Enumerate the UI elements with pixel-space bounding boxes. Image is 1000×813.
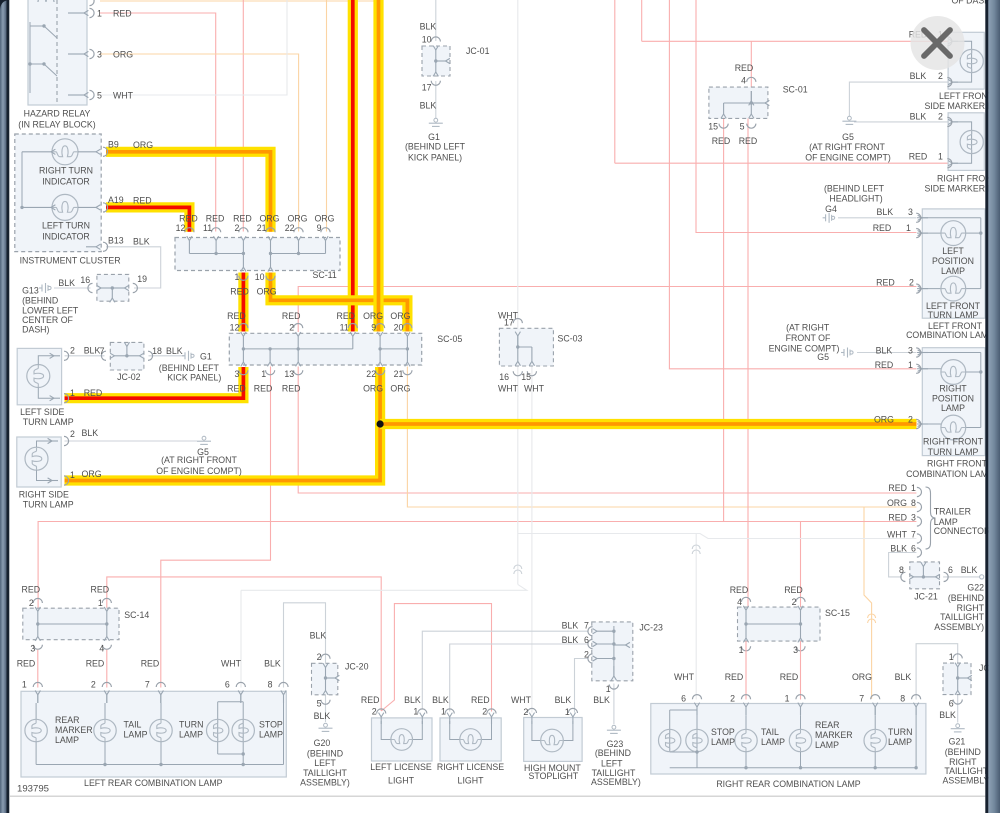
svg-text:TURN LAMP: TURN LAMP xyxy=(23,417,74,427)
svg-text:8: 8 xyxy=(268,679,273,689)
svg-text:ORG: ORG xyxy=(314,213,334,223)
svg-text:LAMP: LAMP xyxy=(124,729,148,739)
svg-text:BLK: BLK xyxy=(910,112,927,122)
svg-text:B13: B13 xyxy=(108,236,124,246)
svg-text:21: 21 xyxy=(257,223,267,233)
svg-text:WHT: WHT xyxy=(113,90,134,100)
svg-text:RED: RED xyxy=(113,8,132,18)
svg-text:1: 1 xyxy=(938,152,943,162)
svg-text:BLK: BLK xyxy=(876,207,893,217)
svg-text:LEFT REAR COMBINATION LAMP: LEFT REAR COMBINATION LAMP xyxy=(84,778,223,788)
svg-text:4: 4 xyxy=(741,76,746,86)
svg-text:RED: RED xyxy=(84,388,103,398)
svg-text:STOP: STOP xyxy=(711,727,735,737)
svg-text:15: 15 xyxy=(521,372,531,382)
svg-text:3: 3 xyxy=(793,645,798,655)
svg-text:3: 3 xyxy=(30,643,35,653)
svg-text:13: 13 xyxy=(284,369,294,379)
svg-text:RED: RED xyxy=(876,278,895,288)
svg-text:LOWER LEFT: LOWER LEFT xyxy=(22,306,79,316)
svg-text:ORG: ORG xyxy=(113,49,133,59)
svg-text:ORG: ORG xyxy=(287,213,307,223)
svg-text:1: 1 xyxy=(606,684,611,694)
svg-text:LAMP: LAMP xyxy=(941,403,965,413)
svg-text:BLK: BLK xyxy=(420,100,437,110)
svg-text:WHT: WHT xyxy=(498,383,519,393)
svg-text:COMBINATION LAMP: COMBINATION LAMP xyxy=(906,330,994,340)
svg-text:(BEHIND LEFT: (BEHIND LEFT xyxy=(405,141,466,151)
svg-text:2: 2 xyxy=(70,346,75,356)
svg-text:1: 1 xyxy=(413,707,418,717)
svg-text:RIGHT: RIGHT xyxy=(939,384,967,394)
svg-text:WHT: WHT xyxy=(674,672,695,682)
svg-text:OF ENGINE COMPT): OF ENGINE COMPT) xyxy=(805,153,891,163)
svg-text:SC-14: SC-14 xyxy=(124,610,149,620)
svg-text:1: 1 xyxy=(785,693,790,703)
svg-text:2: 2 xyxy=(730,693,735,703)
svg-text:RED: RED xyxy=(141,658,160,668)
svg-text:19: 19 xyxy=(137,274,147,284)
svg-text:SC-11: SC-11 xyxy=(313,270,337,280)
svg-text:RED: RED xyxy=(712,136,731,146)
svg-text:1: 1 xyxy=(98,598,103,608)
svg-text:2: 2 xyxy=(482,707,487,717)
svg-text:2: 2 xyxy=(908,414,913,424)
svg-text:RED: RED xyxy=(133,196,152,206)
svg-text:2: 2 xyxy=(317,652,322,662)
svg-text:ASSEMBLY): ASSEMBLY) xyxy=(943,776,993,786)
svg-text:1: 1 xyxy=(234,272,239,282)
svg-text:RED: RED xyxy=(471,695,490,705)
svg-text:2: 2 xyxy=(938,112,943,122)
svg-text:6: 6 xyxy=(949,699,954,709)
svg-text:RED: RED xyxy=(730,585,749,595)
svg-text:18: 18 xyxy=(152,346,162,356)
svg-text:RIGHT LICENSE: RIGHT LICENSE xyxy=(437,762,504,772)
svg-text:(AT RIGHT: (AT RIGHT xyxy=(786,323,830,333)
svg-text:16: 16 xyxy=(80,275,90,285)
svg-text:ORG: ORG xyxy=(257,286,277,296)
svg-text:TAILLIGHT: TAILLIGHT xyxy=(303,768,347,778)
svg-text:RED: RED xyxy=(784,585,803,595)
svg-text:2: 2 xyxy=(234,223,239,233)
svg-text:LEFT SIDE: LEFT SIDE xyxy=(20,407,64,417)
svg-text:LEFT: LEFT xyxy=(314,758,336,768)
svg-text:(AT RIGHT FRONT: (AT RIGHT FRONT xyxy=(161,455,237,465)
svg-text:TRAILER: TRAILER xyxy=(934,506,971,516)
svg-text:JC-20: JC-20 xyxy=(345,661,369,671)
svg-text:22: 22 xyxy=(285,223,295,233)
svg-text:1: 1 xyxy=(949,652,954,662)
svg-text:LAMP: LAMP xyxy=(761,737,785,747)
svg-text:KICK PANEL): KICK PANEL) xyxy=(167,373,221,383)
svg-text:(BEHIND: (BEHIND xyxy=(22,295,58,305)
svg-text:2: 2 xyxy=(909,278,914,288)
svg-text:BLK: BLK xyxy=(432,695,449,705)
svg-text:LAMP: LAMP xyxy=(941,266,965,276)
svg-text:RED: RED xyxy=(230,286,249,296)
svg-text:12: 12 xyxy=(230,323,240,333)
svg-text:RIGHT REAR COMBINATION LAMP: RIGHT REAR COMBINATION LAMP xyxy=(716,779,860,789)
svg-text:RED: RED xyxy=(888,512,907,522)
svg-text:ORG: ORG xyxy=(390,384,410,394)
svg-text:BLK: BLK xyxy=(82,428,99,438)
svg-text:WHT: WHT xyxy=(511,695,532,705)
svg-text:3: 3 xyxy=(234,369,239,379)
svg-text:TAILLIGHT: TAILLIGHT xyxy=(944,766,988,776)
svg-text:17: 17 xyxy=(422,83,432,93)
svg-text:LIGHT: LIGHT xyxy=(458,775,485,785)
svg-text:(AT RIGHT FRONT: (AT RIGHT FRONT xyxy=(809,142,885,152)
svg-text:POSITION: POSITION xyxy=(932,256,974,266)
svg-text:G21: G21 xyxy=(949,737,966,747)
svg-text:RED: RED xyxy=(227,384,246,394)
svg-text:ORG: ORG xyxy=(887,498,907,508)
svg-text:8: 8 xyxy=(900,693,905,703)
svg-text:SC-15: SC-15 xyxy=(825,608,850,618)
svg-text:RED: RED xyxy=(282,384,301,394)
svg-text:G1: G1 xyxy=(200,352,212,362)
svg-text:10: 10 xyxy=(255,272,265,282)
svg-text:TURN: TURN xyxy=(888,727,912,737)
svg-text:2: 2 xyxy=(289,323,294,333)
svg-text:INSTRUMENT CLUSTER: INSTRUMENT CLUSTER xyxy=(20,255,121,265)
svg-text:6: 6 xyxy=(584,635,589,645)
svg-text:BLK: BLK xyxy=(939,710,956,720)
svg-text:22: 22 xyxy=(366,369,376,379)
svg-text:LAMP: LAMP xyxy=(259,729,283,739)
svg-text:A19: A19 xyxy=(108,195,124,205)
svg-text:BLK: BLK xyxy=(314,711,331,721)
svg-text:JC-01: JC-01 xyxy=(466,46,490,56)
svg-text:MARKER: MARKER xyxy=(55,725,93,735)
svg-text:BLK: BLK xyxy=(562,621,579,631)
svg-text:6: 6 xyxy=(225,679,230,689)
svg-text:WHT: WHT xyxy=(221,658,242,668)
svg-text:G5: G5 xyxy=(842,132,854,142)
svg-text:BLK: BLK xyxy=(910,71,927,81)
svg-text:G1: G1 xyxy=(428,132,440,142)
svg-text:TAIL: TAIL xyxy=(124,719,142,729)
svg-text:RIGHT FRONT: RIGHT FRONT xyxy=(927,459,988,469)
svg-text:TAILLIGHT: TAILLIGHT xyxy=(940,612,984,622)
svg-text:WHT: WHT xyxy=(498,310,519,320)
svg-text:RED: RED xyxy=(873,223,892,233)
svg-text:ORG: ORG xyxy=(82,469,102,479)
svg-text:20: 20 xyxy=(394,323,404,333)
svg-text:2: 2 xyxy=(523,707,528,717)
svg-text:RED: RED xyxy=(909,152,928,162)
svg-text:RED: RED xyxy=(888,483,907,493)
svg-text:ASSEMBLY): ASSEMBLY) xyxy=(934,622,984,632)
svg-text:1: 1 xyxy=(911,483,916,493)
svg-text:RIGHT SIDE: RIGHT SIDE xyxy=(19,489,69,499)
svg-text:2: 2 xyxy=(91,679,96,689)
svg-text:ORG: ORG xyxy=(363,311,383,321)
svg-text:KICK PANEL): KICK PANEL) xyxy=(408,152,462,162)
svg-text:JC-02: JC-02 xyxy=(117,372,141,382)
svg-text:SC-03: SC-03 xyxy=(558,334,583,344)
svg-text:9: 9 xyxy=(371,323,376,333)
svg-text:1: 1 xyxy=(739,645,744,655)
svg-text:WHT: WHT xyxy=(887,529,908,539)
svg-text:STOPLIGHT: STOPLIGHT xyxy=(529,771,579,781)
svg-text:9: 9 xyxy=(317,223,322,233)
svg-text:WHT: WHT xyxy=(524,383,545,393)
svg-text:ORG: ORG xyxy=(363,384,383,394)
svg-text:RED: RED xyxy=(282,311,301,321)
svg-text:1: 1 xyxy=(565,707,570,717)
svg-text:RED: RED xyxy=(361,695,380,705)
svg-text:BLK: BLK xyxy=(961,565,978,575)
svg-text:BLK: BLK xyxy=(420,21,437,31)
svg-text:1: 1 xyxy=(908,360,913,370)
svg-text:RED: RED xyxy=(86,658,105,668)
svg-text:OF DASH: OF DASH xyxy=(951,0,990,6)
svg-text:OF ENGINE COMPT): OF ENGINE COMPT) xyxy=(156,466,242,476)
svg-text:TURN: TURN xyxy=(179,719,203,729)
svg-text:2: 2 xyxy=(29,598,34,608)
svg-text:G4: G4 xyxy=(825,204,837,214)
svg-text:RED: RED xyxy=(739,136,758,146)
svg-text:6: 6 xyxy=(911,543,916,553)
svg-text:ORG: ORG xyxy=(874,414,894,424)
svg-text:RED: RED xyxy=(179,213,198,223)
svg-text:CENTER OF: CENTER OF xyxy=(22,315,73,325)
svg-text:JC-21: JC-21 xyxy=(914,591,938,601)
svg-text:LAMP: LAMP xyxy=(711,737,735,747)
svg-text:10: 10 xyxy=(422,34,432,44)
svg-text:4: 4 xyxy=(737,597,742,607)
svg-text:15: 15 xyxy=(708,122,718,132)
svg-text:ORG: ORG xyxy=(390,311,410,321)
svg-text:REAR: REAR xyxy=(815,720,839,730)
svg-text:B9: B9 xyxy=(108,139,119,149)
svg-text:1: 1 xyxy=(97,8,102,18)
svg-text:ASSEMBLY): ASSEMBLY) xyxy=(300,778,350,788)
svg-text:G5: G5 xyxy=(817,352,829,362)
svg-text:1: 1 xyxy=(22,679,27,689)
svg-text:2: 2 xyxy=(938,71,943,81)
svg-text:1: 1 xyxy=(70,388,75,398)
svg-text:LAMP: LAMP xyxy=(815,740,839,750)
svg-text:(BEHIND: (BEHIND xyxy=(945,747,981,757)
svg-text:LEFT TURN: LEFT TURN xyxy=(42,220,90,230)
svg-text:1: 1 xyxy=(261,369,266,379)
svg-text:7: 7 xyxy=(584,621,589,631)
svg-text:8: 8 xyxy=(899,565,904,575)
svg-text:11: 11 xyxy=(340,323,349,333)
svg-text:2: 2 xyxy=(70,429,75,439)
svg-text:ASSEMBLY): ASSEMBLY) xyxy=(591,777,641,787)
svg-text:ORG: ORG xyxy=(133,140,153,150)
svg-text:MARKER: MARKER xyxy=(815,730,853,740)
svg-text:BLK: BLK xyxy=(404,695,421,705)
svg-text:LAMP: LAMP xyxy=(55,735,79,745)
svg-text:193795: 193795 xyxy=(17,784,49,795)
svg-text:6: 6 xyxy=(948,565,953,575)
svg-text:COMBINATION LAMP: COMBINATION LAMP xyxy=(906,469,994,479)
svg-text:SC-01: SC-01 xyxy=(783,85,808,95)
svg-text:TURN LAMP: TURN LAMP xyxy=(928,310,979,320)
svg-text:16: 16 xyxy=(499,372,509,382)
svg-text:REAR: REAR xyxy=(55,715,79,725)
svg-text:RED: RED xyxy=(337,311,356,321)
svg-text:1: 1 xyxy=(441,707,446,717)
svg-text:2: 2 xyxy=(792,597,797,607)
svg-text:LAMP: LAMP xyxy=(888,737,912,747)
svg-text:ORG: ORG xyxy=(259,213,279,223)
svg-text:FRONT OF: FRONT OF xyxy=(786,333,831,343)
svg-text:RIGHT TURN: RIGHT TURN xyxy=(39,165,93,175)
svg-text:RED: RED xyxy=(780,672,799,682)
svg-text:STOP: STOP xyxy=(259,719,283,729)
svg-text:RED: RED xyxy=(227,311,246,321)
svg-text:6: 6 xyxy=(681,693,686,703)
svg-text:(BEHIND: (BEHIND xyxy=(595,748,631,758)
svg-text:RED: RED xyxy=(91,584,110,594)
svg-text:POSITION: POSITION xyxy=(932,393,974,403)
svg-text:3: 3 xyxy=(97,49,102,59)
svg-text:RED: RED xyxy=(254,384,273,394)
svg-text:TAIL: TAIL xyxy=(761,727,779,737)
svg-text:BLK: BLK xyxy=(310,630,327,640)
svg-text:(BEHIND LEFT: (BEHIND LEFT xyxy=(159,363,220,373)
svg-text:BLK: BLK xyxy=(58,278,75,288)
svg-text:JC-23: JC-23 xyxy=(639,622,663,632)
svg-text:LAMP: LAMP xyxy=(179,729,203,739)
svg-text:DASH): DASH) xyxy=(22,325,49,335)
svg-text:RED: RED xyxy=(725,672,744,682)
svg-text:(IN RELAY BLOCK): (IN RELAY BLOCK) xyxy=(18,120,95,130)
svg-text:5: 5 xyxy=(317,699,322,709)
svg-text:CONNECTOR: CONNECTOR xyxy=(934,526,991,536)
svg-text:RED: RED xyxy=(735,63,754,73)
svg-text:RED: RED xyxy=(875,360,894,370)
svg-text:RED: RED xyxy=(22,584,41,594)
svg-text:(BEHIND LEFT: (BEHIND LEFT xyxy=(824,183,885,193)
svg-text:BLK: BLK xyxy=(166,346,183,356)
svg-text:INDICATOR: INDICATOR xyxy=(42,176,90,186)
svg-text:BLK: BLK xyxy=(133,237,150,247)
svg-text:TURN LAMP: TURN LAMP xyxy=(23,500,74,510)
svg-text:7: 7 xyxy=(145,679,150,689)
svg-text:7: 7 xyxy=(100,346,105,356)
svg-text:RIGHT FRONT: RIGHT FRONT xyxy=(923,437,984,447)
svg-text:BLK: BLK xyxy=(593,695,610,705)
svg-text:2: 2 xyxy=(584,650,589,660)
svg-text:BLK: BLK xyxy=(562,635,579,645)
svg-text:BLK: BLK xyxy=(895,672,912,682)
svg-text:LIGHT: LIGHT xyxy=(388,775,415,785)
svg-text:G22: G22 xyxy=(967,583,984,593)
svg-text:7: 7 xyxy=(859,693,864,703)
svg-text:INDICATOR: INDICATOR xyxy=(42,231,90,241)
svg-text:(BEHIND: (BEHIND xyxy=(948,593,984,603)
svg-text:BLK: BLK xyxy=(555,695,572,705)
svg-text:LEFT: LEFT xyxy=(942,246,964,256)
svg-text:11: 11 xyxy=(203,223,212,233)
svg-text:1: 1 xyxy=(70,470,75,480)
svg-text:BLK: BLK xyxy=(84,346,101,356)
svg-text:3: 3 xyxy=(908,207,913,217)
svg-text:12: 12 xyxy=(176,223,186,233)
svg-text:3: 3 xyxy=(908,346,913,356)
svg-text:BLK: BLK xyxy=(264,658,281,668)
svg-text:7: 7 xyxy=(911,529,916,539)
svg-text:HEADLIGHT): HEADLIGHT) xyxy=(829,193,882,203)
svg-text:21: 21 xyxy=(394,369,404,379)
svg-text:TURN LAMP: TURN LAMP xyxy=(928,447,979,457)
svg-text:RED: RED xyxy=(17,658,36,668)
svg-text:2: 2 xyxy=(372,707,377,717)
svg-text:5: 5 xyxy=(740,122,745,132)
svg-text:BLK: BLK xyxy=(876,346,893,356)
svg-text:RED: RED xyxy=(206,213,225,223)
svg-text:G20: G20 xyxy=(314,738,331,748)
svg-text:BLK: BLK xyxy=(890,543,907,553)
svg-text:RED: RED xyxy=(233,213,252,223)
svg-text:G13: G13 xyxy=(22,286,39,296)
svg-text:LEFT LICENSE: LEFT LICENSE xyxy=(370,762,432,772)
svg-text:3: 3 xyxy=(911,512,916,522)
svg-text:1: 1 xyxy=(906,223,911,233)
svg-text:8: 8 xyxy=(911,498,916,508)
svg-text:HAZARD RELAY: HAZARD RELAY xyxy=(24,109,91,119)
svg-text:SC-05: SC-05 xyxy=(437,334,462,344)
svg-text:5: 5 xyxy=(97,90,102,100)
svg-text:4: 4 xyxy=(99,643,104,653)
svg-text:ORG: ORG xyxy=(852,672,872,682)
